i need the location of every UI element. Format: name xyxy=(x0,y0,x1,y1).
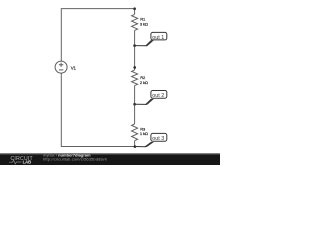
svg-text:3 kΩ: 3 kΩ xyxy=(140,21,148,26)
wire left-bottom loop xyxy=(61,73,135,146)
resistor R3 xyxy=(132,124,138,141)
svg-text:1 kΩ: 1 kΩ xyxy=(140,131,148,136)
voltage source V1 xyxy=(55,61,67,73)
wire below R3 xyxy=(134,141,136,147)
flag out 2 xyxy=(135,91,167,105)
footer bar xyxy=(0,153,220,165)
flag out 1 xyxy=(135,32,167,46)
node dot bottom-right corner xyxy=(134,145,137,148)
wire between R2 and R3 xyxy=(134,86,136,124)
svg-text:out 3: out 3 xyxy=(152,136,164,142)
footer logo waveform xyxy=(9,160,22,164)
node dot above R2 xyxy=(133,66,136,69)
wire top loop xyxy=(61,9,134,62)
wire between R1 and R2 xyxy=(134,30,136,70)
svg-text:LAB: LAB xyxy=(23,160,32,165)
svg-text:V1: V1 xyxy=(71,65,77,70)
resistor R2 xyxy=(132,70,138,85)
svg-text:2 kΩ: 2 kΩ xyxy=(140,80,148,85)
node dot out1 junction xyxy=(133,44,136,47)
node dot out2 junction xyxy=(133,103,136,106)
resistor R1 xyxy=(132,14,138,30)
svg-text:out 2: out 2 xyxy=(152,93,164,99)
svg-text:out 1: out 1 xyxy=(152,35,164,41)
flag out 3 xyxy=(135,133,167,147)
svg-text:http://circuitlab.com/c/5635bd: http://circuitlab.com/c/5635bdd8vh xyxy=(43,156,107,161)
node dot top-right corner xyxy=(133,7,136,10)
